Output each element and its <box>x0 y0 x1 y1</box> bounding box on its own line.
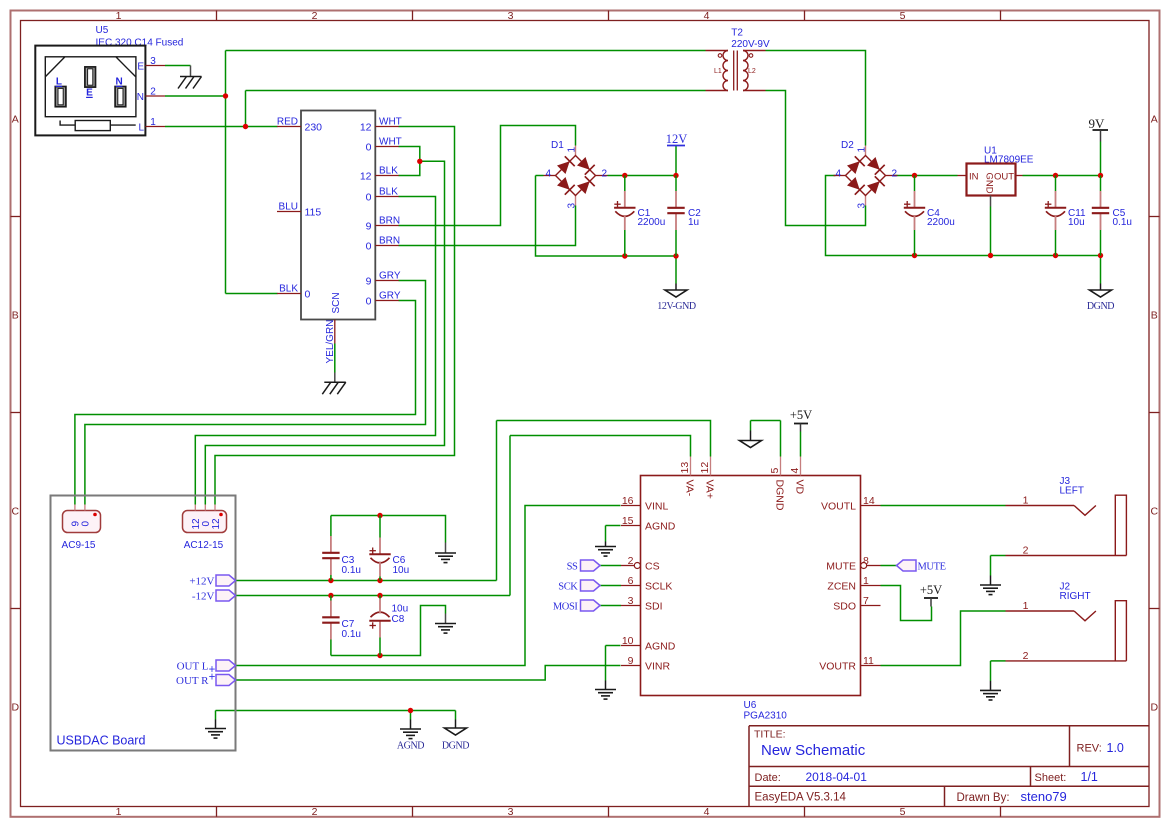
svg-text:BLU: BLU <box>279 202 298 213</box>
svg-text:Date:: Date: <box>755 772 781 784</box>
svg-text:1: 1 <box>863 575 869 587</box>
svg-text:D: D <box>12 701 20 713</box>
svg-text:USBDAC Board: USBDAC Board <box>57 734 146 748</box>
svg-text:VD: VD <box>793 480 805 495</box>
svg-text:B: B <box>1151 309 1158 321</box>
svg-text:4: 4 <box>789 468 801 474</box>
svg-text:4: 4 <box>836 169 842 180</box>
svg-text:L2: L2 <box>748 68 756 75</box>
svg-text:2: 2 <box>1023 650 1029 662</box>
svg-text:D1: D1 <box>551 140 564 151</box>
svg-text:14: 14 <box>863 495 875 507</box>
svg-text:IEC 320 C14 Fused: IEC 320 C14 Fused <box>96 38 184 49</box>
svg-text:BLK: BLK <box>379 166 398 177</box>
svg-text:WHT: WHT <box>379 117 402 128</box>
svg-text:CS: CS <box>645 560 660 572</box>
svg-text:AGND: AGND <box>397 741 424 752</box>
svg-text:steno79: steno79 <box>1021 789 1067 804</box>
svg-text:2: 2 <box>628 555 634 567</box>
svg-text:1: 1 <box>566 147 577 153</box>
svg-text:230: 230 <box>305 122 323 134</box>
svg-text:C: C <box>12 505 20 517</box>
svg-text:2200u: 2200u <box>927 217 955 228</box>
svg-text:0: 0 <box>81 521 92 527</box>
svg-text:D2: D2 <box>841 140 854 151</box>
svg-text:3: 3 <box>628 595 634 607</box>
svg-text:AC9-15: AC9-15 <box>62 540 96 551</box>
svg-text:3: 3 <box>150 56 156 67</box>
svg-text:C8: C8 <box>392 614 405 625</box>
svg-text:T2: T2 <box>731 28 743 39</box>
svg-text:3: 3 <box>508 806 514 818</box>
svg-text:Sheet:: Sheet: <box>1035 772 1067 784</box>
svg-text:SDI: SDI <box>645 600 663 612</box>
svg-text:1.0: 1.0 <box>1107 741 1124 755</box>
svg-text:1: 1 <box>856 147 867 153</box>
svg-text:BLK: BLK <box>279 284 298 295</box>
svg-text:VOUTL: VOUTL <box>821 500 856 512</box>
svg-text:10u: 10u <box>392 604 409 615</box>
svg-text:MOSI: MOSI <box>553 602 579 613</box>
svg-text:4: 4 <box>704 806 710 818</box>
svg-text:VOUTR: VOUTR <box>819 660 856 672</box>
svg-text:12V: 12V <box>666 132 688 146</box>
svg-text:MUTE: MUTE <box>918 562 946 573</box>
svg-text:2: 2 <box>312 806 318 818</box>
svg-text:0: 0 <box>366 241 372 253</box>
svg-text:2: 2 <box>602 169 608 180</box>
svg-text:10u: 10u <box>1068 217 1085 228</box>
svg-text:A: A <box>1151 113 1158 125</box>
svg-text:12: 12 <box>360 122 372 134</box>
svg-text:1/1: 1/1 <box>1081 770 1098 784</box>
svg-text:3: 3 <box>508 10 514 22</box>
svg-text:+12V: +12V <box>189 576 214 588</box>
svg-text:0: 0 <box>366 192 372 204</box>
svg-text:13: 13 <box>679 462 691 474</box>
svg-text:DGND: DGND <box>1087 301 1114 312</box>
svg-text:9: 9 <box>366 276 372 288</box>
svg-text:YEL/GRN: YEL/GRN <box>325 320 336 364</box>
svg-text:U6: U6 <box>744 700 757 711</box>
svg-text:0: 0 <box>366 296 372 308</box>
svg-text:3: 3 <box>856 203 867 209</box>
svg-text:OUT L: OUT L <box>177 661 209 673</box>
svg-text:2018-04-01: 2018-04-01 <box>806 770 868 784</box>
svg-text:PGA2310: PGA2310 <box>744 711 788 722</box>
svg-text:3: 3 <box>566 203 577 209</box>
svg-text:2: 2 <box>150 87 156 98</box>
svg-text:GRY: GRY <box>379 271 401 282</box>
svg-text:E: E <box>137 61 144 72</box>
svg-text:C: C <box>1151 505 1159 517</box>
svg-text:+: + <box>209 672 216 684</box>
svg-text:Drawn By:: Drawn By: <box>957 792 1010 804</box>
svg-text:0: 0 <box>366 142 372 154</box>
svg-text:GND: GND <box>983 173 994 194</box>
svg-text:1u: 1u <box>688 217 699 228</box>
svg-text:1: 1 <box>1023 495 1029 507</box>
svg-text:6: 6 <box>628 575 634 587</box>
svg-text:N: N <box>137 92 144 103</box>
svg-text:SCLK: SCLK <box>645 580 672 592</box>
svg-text:10: 10 <box>622 635 634 647</box>
svg-text:7: 7 <box>863 595 869 607</box>
svg-text:BRN: BRN <box>379 236 400 247</box>
svg-text:1: 1 <box>1023 600 1029 612</box>
svg-text:2: 2 <box>312 10 318 22</box>
svg-text:SDO: SDO <box>833 600 856 612</box>
svg-text:11: 11 <box>863 655 874 667</box>
svg-text:VINL: VINL <box>645 500 669 512</box>
svg-text:VA+: VA+ <box>703 480 715 499</box>
svg-text:B: B <box>12 309 19 321</box>
svg-text:+5V: +5V <box>790 408 812 422</box>
svg-text:OUT: OUT <box>994 172 1014 183</box>
svg-text:RED: RED <box>277 117 298 128</box>
svg-text:OUT R: OUT R <box>176 675 209 687</box>
svg-text:L1: L1 <box>714 68 722 75</box>
svg-text:5: 5 <box>900 806 906 818</box>
svg-text:0.1u: 0.1u <box>342 629 361 640</box>
svg-text:D: D <box>1151 701 1159 713</box>
svg-text:10u: 10u <box>393 565 410 576</box>
svg-text:12V-GND: 12V-GND <box>657 301 696 312</box>
svg-text:AGND: AGND <box>645 520 676 532</box>
svg-text:2: 2 <box>1023 545 1029 557</box>
svg-text:AC12-15: AC12-15 <box>184 540 224 551</box>
svg-text:12: 12 <box>211 518 222 530</box>
svg-text:9: 9 <box>628 655 634 667</box>
svg-text:VA-: VA- <box>683 480 695 497</box>
svg-text:220V-9V: 220V-9V <box>731 39 770 50</box>
svg-text:SS: SS <box>567 562 578 573</box>
svg-text:12: 12 <box>699 462 711 474</box>
svg-text:REV:: REV: <box>1077 743 1102 755</box>
svg-text:2: 2 <box>892 169 898 180</box>
svg-text:GRY: GRY <box>379 291 401 302</box>
svg-text:BLK: BLK <box>379 187 398 198</box>
svg-text:EasyEDA V5.3.14: EasyEDA V5.3.14 <box>755 792 847 804</box>
svg-text:4: 4 <box>546 169 552 180</box>
svg-text:U5: U5 <box>96 25 109 36</box>
svg-text:0.1u: 0.1u <box>1113 217 1132 228</box>
svg-text:ZCEN: ZCEN <box>827 580 856 592</box>
svg-text:16: 16 <box>622 495 634 507</box>
svg-text:DGND: DGND <box>773 480 785 511</box>
svg-text:2200u: 2200u <box>638 217 666 228</box>
svg-text:TITLE:: TITLE: <box>754 728 786 740</box>
svg-text:12: 12 <box>360 171 372 183</box>
svg-text:IN: IN <box>969 172 979 183</box>
svg-text:+5V: +5V <box>920 583 942 597</box>
svg-text:15: 15 <box>622 515 634 527</box>
svg-text:VINR: VINR <box>645 660 671 672</box>
svg-text:LEFT: LEFT <box>1060 486 1084 497</box>
svg-text:9V: 9V <box>1089 116 1106 131</box>
svg-text:SCN: SCN <box>331 292 342 313</box>
svg-text:-12V: -12V <box>192 591 215 603</box>
svg-text:4: 4 <box>704 10 710 22</box>
svg-text:5: 5 <box>900 10 906 22</box>
svg-text:WHT: WHT <box>379 137 402 148</box>
svg-text:1: 1 <box>116 806 122 818</box>
svg-text:L: L <box>138 122 144 133</box>
svg-text:DGND: DGND <box>442 741 469 752</box>
svg-text:1: 1 <box>116 10 122 22</box>
svg-text:A: A <box>12 113 19 125</box>
svg-text:AGND: AGND <box>645 640 676 652</box>
svg-text:MUTE: MUTE <box>826 560 856 572</box>
svg-text:BRN: BRN <box>379 216 400 227</box>
svg-text:RIGHT: RIGHT <box>1060 591 1091 602</box>
svg-text:New Schematic: New Schematic <box>761 742 866 759</box>
svg-text:5: 5 <box>769 468 781 474</box>
svg-text:115: 115 <box>305 207 322 219</box>
svg-text:SCK: SCK <box>558 582 578 593</box>
svg-text:0: 0 <box>305 289 311 301</box>
svg-text:9: 9 <box>366 221 372 233</box>
svg-text:0.1u: 0.1u <box>342 565 361 576</box>
svg-text:1: 1 <box>150 117 156 128</box>
